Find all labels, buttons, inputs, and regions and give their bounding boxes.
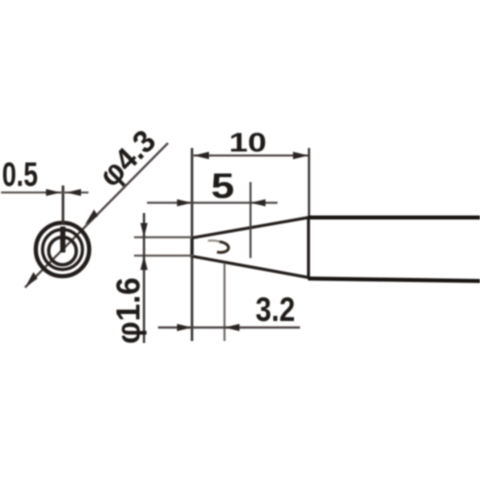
cone bottom edge <box>193 256 309 277</box>
bevel edge arc <box>208 240 220 241</box>
tip face <box>190 237 193 258</box>
3.2 right arrow (outside) <box>225 324 240 331</box>
phi1.6 dimension line (vertical) <box>143 213 145 343</box>
10 right arrow <box>293 152 309 159</box>
0.5 dimension line <box>1 192 89 194</box>
3.2 left arrow (outside) <box>177 324 192 331</box>
svg-text:φ1.6: φ1.6 <box>110 277 147 344</box>
svg-text:3.2: 3.2 <box>256 291 296 329</box>
leader line phi4.3 <box>25 143 168 288</box>
0.5 left arrow <box>46 189 61 196</box>
phi1.6 top extension line <box>134 236 193 238</box>
10 left arrow <box>194 152 210 159</box>
inner circle <box>43 230 83 270</box>
body top edge <box>308 216 480 220</box>
cone top edge <box>193 218 309 238</box>
body bottom edge <box>308 279 480 282</box>
5 left arrow (outside) <box>177 199 192 206</box>
5 extension line <box>250 182 252 258</box>
leader arrowhead lower-left end <box>25 272 38 288</box>
phi1.6 bottom arrow (pointing up) <box>140 256 147 270</box>
3.2 extension line <box>224 263 226 341</box>
junction vertical line <box>307 216 310 279</box>
svg-text:10: 10 <box>229 128 267 158</box>
extension line above junction <box>308 148 310 218</box>
chisel edge bar <box>60 227 65 253</box>
vertical line from chisel edge up to 0.5 dimension <box>62 186 65 226</box>
long vertical extension line (tip face) <box>191 148 193 341</box>
small circle (tip 1.6) <box>49 237 77 265</box>
svg-text:0.5: 0.5 <box>2 157 38 194</box>
5 dimension line <box>147 202 278 204</box>
phi1.6 top arrow (pointing down) <box>140 223 147 237</box>
0.5 right arrow <box>66 189 81 196</box>
outer circle (sleeve dia 4.3) <box>36 223 89 276</box>
10 dimension line <box>194 155 309 157</box>
3.2 dimension line <box>158 326 300 328</box>
phi1.6 bottom extension line <box>134 255 194 257</box>
5 right arrow (outside) <box>251 199 266 206</box>
leader arrowhead at circle edge <box>85 210 98 225</box>
svg-text:5: 5 <box>211 167 234 206</box>
